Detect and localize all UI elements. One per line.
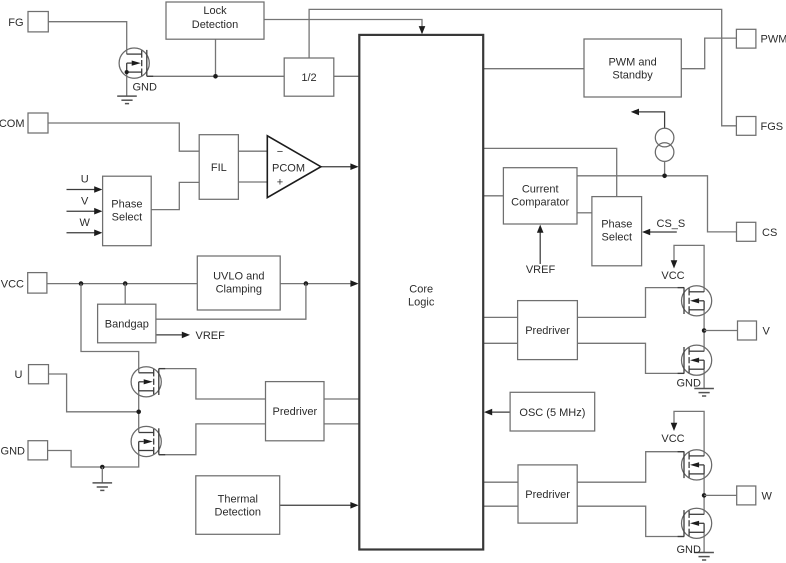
wire VCC bracket V (674, 245, 704, 292)
wire Q1 gate to half divider (147, 75, 284, 77)
comparator PCOM (267, 136, 321, 198)
wire Q2 gate to predriver U (159, 369, 266, 399)
wire core to predriver V lower (484, 342, 518, 344)
block PWM and Standby (584, 39, 681, 97)
svg-text:Comparator: Comparator (511, 197, 569, 209)
svg-text:VCC: VCC (661, 270, 684, 282)
block Predriver V (518, 301, 578, 360)
block OSC (510, 392, 595, 431)
svg-text:Detection: Detection (215, 507, 261, 519)
svg-text:VCC: VCC (1, 279, 24, 291)
wire Q7 source to ground (703, 532, 705, 552)
junction CS node (662, 174, 667, 179)
svg-text:FGS: FGS (761, 121, 784, 133)
pin VCC (28, 273, 47, 294)
svg-text:U: U (81, 174, 89, 186)
wire VCC to Q2 drain (81, 284, 139, 373)
svg-text:Predriver: Predriver (525, 325, 570, 337)
wire lock-detection bottom stub (215, 39, 217, 76)
junction VCC node c (304, 281, 309, 286)
wire Q5 source to ground (703, 369, 705, 388)
ground symbol GND4 (694, 553, 714, 561)
svg-text:VREF: VREF (526, 264, 556, 276)
wire Q4 source to Q5 drain (703, 310, 705, 352)
junction V phase node (702, 328, 707, 333)
wire predriver W to Q6 gate (577, 452, 684, 483)
svg-text:Select: Select (602, 232, 633, 244)
wire top rail to FGS (309, 9, 736, 125)
wire V sense input (67, 210, 97, 212)
svg-text:CS: CS (762, 227, 777, 239)
svg-text:UVLO and: UVLO and (213, 271, 264, 283)
wire VCC bracket W (674, 411, 704, 456)
arrowhead CS_S into phase select (642, 229, 650, 236)
arrowhead VREF up (537, 225, 544, 233)
svg-text:Phase: Phase (601, 219, 632, 231)
svg-text:Thermal: Thermal (218, 494, 258, 506)
svg-text:W: W (80, 217, 91, 229)
svg-text:Lock: Lock (203, 5, 227, 17)
svg-text:U: U (15, 369, 23, 381)
svg-text:+: + (277, 177, 283, 189)
wire W node to W pin (704, 494, 737, 496)
arrowhead into core logic thermal (350, 502, 358, 509)
transistor Q3 U low-side FET (131, 426, 165, 456)
wire Q3 gate to predriver U (159, 424, 266, 455)
wire current source to CS node (664, 161, 666, 175)
svg-text:FIL: FIL (211, 162, 227, 174)
pin CS (737, 222, 756, 241)
wire PCOM output to core logic (321, 166, 357, 168)
svg-text:Detection: Detection (192, 19, 238, 31)
transistor Q4 V high-side FET (678, 286, 712, 316)
wire core to phase select 2 (484, 148, 617, 196)
wire core to predriver V upper (484, 316, 518, 318)
wire predriver W to Q7 gate (577, 506, 684, 536)
wire VREF left arrow (156, 334, 184, 336)
wire Q3 source to ground rail (102, 451, 138, 468)
wire VCC rail (47, 283, 197, 285)
transistor Q5 V low-side FET (678, 345, 712, 375)
transistor Q1 FG sense FET (119, 48, 153, 78)
svg-text:VREF: VREF (196, 330, 226, 342)
junction FG gate node (213, 74, 218, 79)
block FIL (199, 135, 238, 200)
wire UVLO out to core logic (280, 283, 357, 285)
svg-text:COM: COM (0, 118, 25, 130)
block Core Logic (359, 35, 483, 550)
junction ground node (100, 465, 105, 470)
svg-text:GND: GND (133, 82, 158, 94)
svg-text:V: V (763, 326, 771, 338)
junction VCC node a (79, 281, 84, 286)
wire bandgap top stub (124, 284, 126, 305)
block Phase Select right (592, 197, 642, 266)
transistor Q2 U high-side FET (131, 367, 165, 397)
wire FG pin to Q1 drain (48, 22, 126, 55)
wire VREF up arrow (539, 230, 541, 264)
wire half divider to core logic (334, 75, 359, 77)
pin W (737, 486, 756, 505)
transistor Q7 W low-side FET (678, 508, 712, 538)
svg-text:Current: Current (522, 184, 559, 196)
wire CS_S arrow (648, 231, 677, 233)
wire V node to V pin (704, 330, 737, 332)
junction VCC node b (123, 281, 128, 286)
arrowhead into core logic VCC (350, 280, 358, 287)
svg-text:−: − (277, 146, 283, 158)
block Bandgap (98, 304, 156, 343)
block Phase Select left (103, 176, 152, 246)
svg-text:OSC (5 MHz): OSC (5 MHz) (519, 407, 585, 419)
arrowhead W input (94, 230, 102, 237)
svg-text:VCC: VCC (661, 433, 684, 445)
wire standby enable arrow (637, 112, 665, 128)
pin V (738, 321, 757, 340)
wire FIL to PCOM plus (238, 181, 267, 183)
arrowhead V input (94, 208, 102, 215)
svg-text:Clamping: Clamping (216, 284, 262, 296)
svg-text:PCOM: PCOM (272, 163, 305, 175)
arrowhead into core logic top (419, 26, 426, 34)
svg-text:1/2: 1/2 (301, 72, 316, 84)
wire COM pin to FIL (48, 123, 199, 151)
current source I1 (655, 128, 674, 161)
svg-text:Select: Select (112, 212, 143, 224)
arrowhead OSC into core (484, 409, 492, 416)
svg-text:Predriver: Predriver (272, 406, 317, 418)
wire current comparator to CS pin (577, 176, 737, 232)
svg-text:GND: GND (677, 544, 702, 556)
svg-text:CS_S: CS_S (657, 218, 686, 230)
block Current Comparator (503, 168, 577, 224)
svg-text:GND: GND (1, 446, 26, 458)
svg-text:Bandgap: Bandgap (105, 319, 149, 331)
wire U pin to phase node (49, 374, 139, 412)
svg-text:Logic: Logic (408, 297, 435, 309)
svg-text:PWM and: PWM and (608, 57, 656, 69)
wire GND pin to ground rail (48, 451, 103, 468)
pin FGS (736, 117, 756, 136)
block Thermal Detection (196, 476, 280, 535)
svg-text:GND: GND (677, 378, 702, 390)
arrowhead U input (94, 186, 102, 193)
wire core to predriver W lower (484, 505, 518, 507)
svg-text:Predriver: Predriver (525, 489, 570, 501)
wire Q6 source to Q7 drain (703, 474, 705, 515)
svg-text:Core: Core (409, 284, 433, 296)
wire core to current comparator (484, 195, 504, 197)
pin FG (28, 12, 48, 32)
junction W phase node (702, 493, 707, 498)
wire core to PWM standby (484, 68, 584, 70)
svg-text:V: V (81, 195, 89, 207)
block 1/2 divider (284, 58, 334, 96)
arrowhead standby enable (631, 109, 639, 116)
block UVLO and Clamping (197, 256, 280, 310)
wire W sense input (67, 232, 97, 234)
wire bandgap output to node (156, 284, 306, 320)
arrowhead VCC V down (671, 260, 678, 268)
block Predriver U (266, 382, 325, 441)
wire predriver U out upper (324, 398, 359, 400)
wire predriver V to Q4 gate (577, 288, 684, 318)
junction U phase node (136, 410, 141, 415)
wire Q1 source to ground (126, 72, 128, 96)
block Lock Detection (166, 2, 264, 39)
svg-text:PWM: PWM (761, 34, 786, 46)
arrowhead into core logic PCOM (350, 163, 358, 170)
transistor Q6 W high-side FET (678, 450, 712, 480)
wire predriver U out lower (324, 423, 359, 425)
wire ground stub (101, 467, 103, 483)
wire core to predriver W upper (484, 481, 518, 483)
svg-text:Phase: Phase (111, 199, 142, 211)
svg-text:Standby: Standby (612, 70, 653, 82)
wire OSC to core logic (489, 411, 510, 413)
arrowhead VCC W down (671, 423, 678, 431)
pin U (29, 365, 49, 384)
wire FIL to PCOM minus (238, 150, 267, 152)
wire thermal detection to core logic (280, 504, 357, 506)
ground symbol GND2 (93, 483, 113, 491)
pin COM (28, 113, 48, 133)
pin GND (28, 441, 48, 460)
arrowhead VREF left (182, 332, 190, 339)
ground symbol GND1 (117, 96, 137, 104)
wire PWM standby to PWM pin (681, 38, 736, 69)
svg-text:W: W (762, 491, 773, 503)
ground symbol GND3 (694, 389, 714, 397)
pin PWM (736, 29, 756, 48)
wire predriver V to Q5 gate (577, 343, 684, 373)
svg-text:FG: FG (8, 17, 23, 29)
wire phase-select to FIL (151, 182, 199, 209)
wire current comparator to phase select 2 (577, 212, 592, 214)
wire lock-detection output to core logic top (264, 20, 422, 34)
wire U sense input (67, 189, 97, 191)
block Predriver W (518, 465, 577, 523)
wire Q2 source to Q3 drain (138, 391, 140, 433)
